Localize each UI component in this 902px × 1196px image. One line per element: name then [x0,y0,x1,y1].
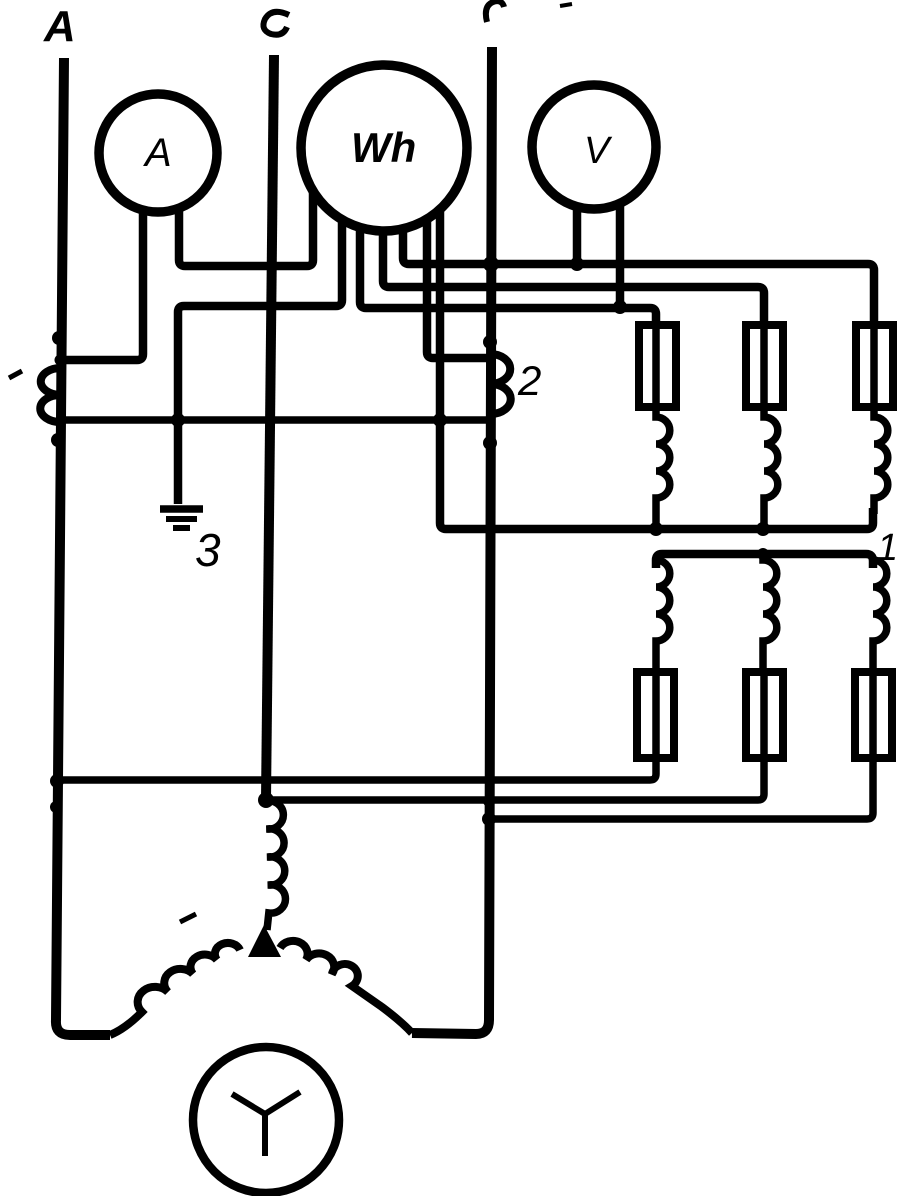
wire Wh lead 6 to bus c [427,218,489,358]
node dot CT-A bottom [51,433,65,447]
svg-text:2: 2 [517,357,541,404]
node dot bus c crossing [483,795,495,807]
node dot bus c with top line [483,256,499,272]
fuse F2 [746,325,783,407]
node dot voltmeter left lead [570,257,584,271]
wire Wh lead 3 to fuse F1 [360,227,656,327]
inductor load winding left arc [110,943,240,1035]
stray mark top [560,4,572,6]
wire Wh lead 2 to ground branch [178,219,342,504]
motor stator circle [193,1047,339,1193]
node dot CT-c bottom [483,436,497,450]
svg-text:V: V [584,130,613,172]
node dot CT-c top [483,335,497,349]
inductor load winding phase b [266,801,285,930]
node dot VT2 star [756,522,770,536]
wire fuse F6 to bus c [489,759,873,819]
inductor VT primary L1 [656,407,670,529]
node c label [486,1,504,22]
node dot bus A blob [50,801,62,813]
node dot VT1 star [649,522,663,536]
wire VT secondary common line [656,554,873,568]
node dot bus A lower tap [50,774,64,788]
motor Y symbol [232,1092,300,1156]
wire Wh lead 4 to fuse F2 [383,230,764,327]
node dot ammeter lead on bus A [55,355,66,366]
inductor VT primary L2 [764,407,778,529]
watt-hour meter Wh [301,65,467,231]
voltmeter V [532,85,656,209]
fuse F3 [856,325,893,407]
wire CT secondary return line [58,416,487,424]
current transformer CT-c on bus c [490,354,511,414]
svg-text:A: A [143,131,172,175]
node dot voltmeter right lead [613,300,627,314]
stray mark middle [180,914,196,922]
wire phase bus A [56,58,110,1035]
wire voltmeter right lead [616,203,625,306]
fuse F6 [855,672,892,758]
svg-text:Wh: Wh [351,124,416,171]
node dot bus c lower tap [482,812,496,826]
star point junction [248,925,281,957]
inductor VT secondary L4 [656,560,670,672]
wire voltmeter left lead [573,206,582,263]
node dot VT2 secondary top [757,548,769,560]
fuse F4 [637,672,674,758]
node dot CT-A top [52,331,66,345]
ground symbol [160,509,203,528]
fuse F5 [746,672,783,758]
wire phase bus c [412,47,492,1034]
wire Wh lead 5 to fuse F3 [403,228,874,327]
wire fuse F4 to bus A [58,759,656,780]
node dot ground branch on return line [171,413,185,427]
node dot Wh lead 7 on return line [433,413,447,427]
node dot winding top [258,792,274,808]
wire phase bus b [266,55,274,799]
inductor VT secondary L5 [763,554,777,672]
ammeter A1 [99,94,217,212]
node b label [263,12,289,35]
svg-text:A: A [43,2,76,51]
stray mark left [9,371,22,378]
wire Wh lead 7 down to VT star point line [440,208,873,529]
wire ammeter right lead to Wh current coil [179,190,313,266]
current transformer CT-A on bus A [40,368,61,422]
svg-text:3: 3 [195,524,221,576]
wire fuse F5 to winding top [266,759,764,800]
wire ammeter left lead to bus A [60,210,143,360]
inductor VT secondary L6 [873,560,887,672]
fuse F1 [639,325,676,407]
inductor VT primary L3 [874,407,888,514]
inductor load winding right arc [280,941,412,1033]
